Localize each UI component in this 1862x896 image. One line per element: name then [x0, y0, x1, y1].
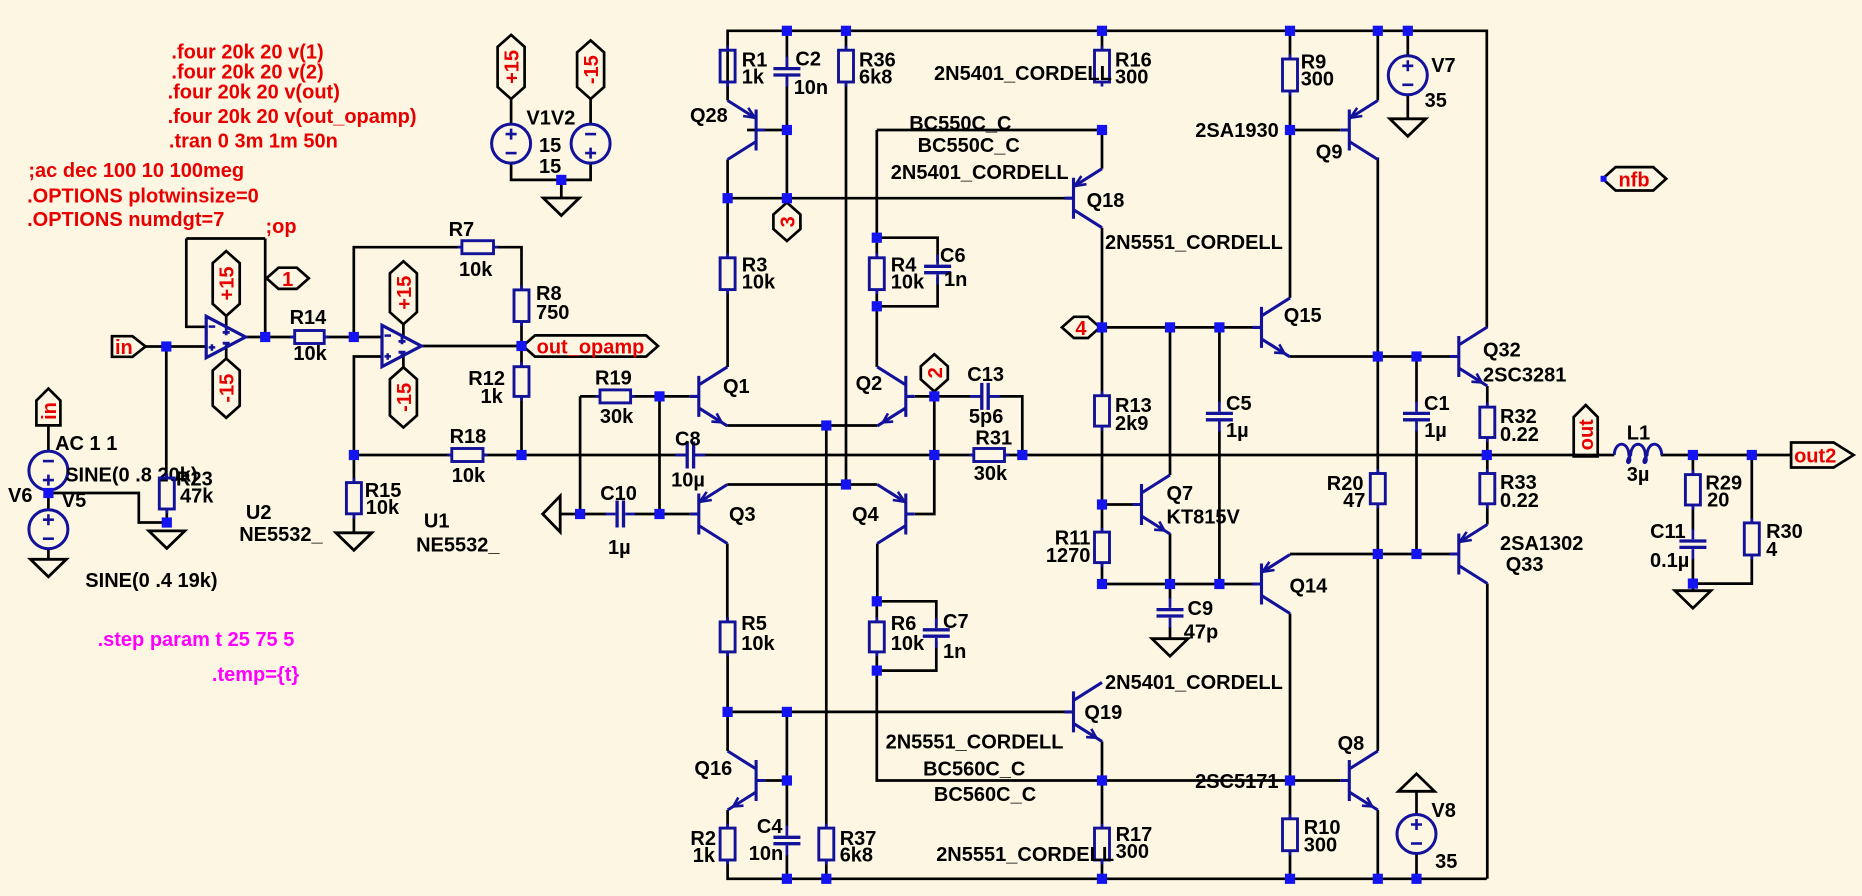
svg-text:1µ: 1µ — [1424, 420, 1447, 442]
wire R6 node down and right to Q19 emitter node — [877, 671, 1102, 781]
wire U1 +input down to R15/R18 node — [354, 357, 382, 456]
svg-text:NE5532_: NE5532_ — [416, 535, 500, 557]
wire U2 feedback left to -input — [186, 239, 206, 327]
svg-text:47k: 47k — [180, 486, 214, 508]
wire R23 bottom to ground node — [165, 509, 168, 523]
resistor R19 — [595, 368, 635, 429]
svg-text:+15: +15 — [394, 276, 416, 310]
svg-text:R5: R5 — [741, 613, 767, 635]
wire Q14 emitter bus to Q33 base — [1290, 553, 1450, 556]
net flag out_opamp — [523, 335, 658, 358]
junction V6 V5 — [43, 488, 53, 498]
wire U1 V- to -15 flag — [402, 356, 405, 367]
wire out node: L1 to out2 flag — [1661, 454, 1791, 457]
svg-text:BC550C_C: BC550C_C — [909, 113, 1011, 135]
power flag -15 at U2 — [213, 359, 240, 418]
junction U2 output — [260, 332, 270, 342]
svg-text:10n: 10n — [794, 77, 828, 99]
wire in flag to U2 +input — [146, 345, 207, 348]
junction Q8 base R10 — [1285, 775, 1295, 785]
wire node 3 bus to Q18 base — [728, 197, 1065, 200]
ground below R23 — [149, 531, 185, 549]
transistor Q32 — [1450, 327, 1567, 387]
wire bus to C1 top — [1415, 357, 1418, 403]
wire C11 to ground node — [1692, 558, 1695, 591]
svg-text:47p: 47p — [1184, 622, 1218, 644]
wire Q3 emitter to Q4 emitter — [727, 483, 877, 486]
svg-text:2k9: 2k9 — [1115, 413, 1148, 435]
svg-text:-15: -15 — [217, 374, 239, 403]
wire C6 bottom jog — [877, 277, 938, 306]
junction C10 left — [575, 509, 585, 519]
resistor R29 — [1685, 470, 1742, 511]
capacitor C5 — [1206, 393, 1252, 442]
svg-text:C9: C9 — [1188, 598, 1214, 620]
svg-text:V7: V7 — [1431, 55, 1455, 77]
wire +15 flag to U1 V+ — [402, 324, 405, 336]
wire Q28 collector to node3 and R3 top — [726, 160, 729, 258]
transistor Q8 — [1338, 733, 1378, 810]
resistor R36 — [839, 46, 896, 89]
svg-text:;op: ;op — [266, 216, 297, 238]
resistor R9 — [1283, 51, 1335, 95]
wire Q18 emitter node to R4 column (BC550C_C bus) — [877, 129, 1102, 132]
junction node4 — [1097, 322, 1107, 332]
svg-text:10k: 10k — [452, 465, 486, 487]
transistor Q9 — [1316, 101, 1378, 164]
svg-text:Q14: Q14 — [1290, 576, 1329, 598]
svg-text:.four 20k 20 v(2): .four 20k 20 v(2) — [171, 62, 323, 84]
wire node down to Q16 base node — [786, 712, 789, 781]
wire node2 down main bus to Q4 base — [915, 391, 935, 514]
net flag out — [1574, 405, 1599, 456]
wire R4 bottom stub — [875, 290, 878, 307]
ground below V7 — [1390, 119, 1426, 137]
wire V8 to rail — [1415, 854, 1418, 879]
junction R6 top — [872, 596, 882, 606]
wire down to R4 top junction — [875, 130, 878, 238]
wire R14 to U1 -input — [324, 336, 382, 339]
transistor Q15 — [1253, 298, 1322, 357]
wire V6/V5 node to R23 ground node — [48, 493, 166, 523]
svg-text:2N5401_CORDELL: 2N5401_CORDELL — [934, 63, 1112, 85]
wire row to C9 top — [1169, 584, 1172, 599]
capacitor C8 — [671, 429, 705, 492]
svg-text:2N5401_CORDELL: 2N5401_CORDELL — [1105, 672, 1283, 694]
junction Q7 base — [1097, 499, 1107, 509]
svg-text:V6: V6 — [8, 485, 32, 507]
wire C7 top jog — [877, 601, 937, 626]
junction Q28 base — [782, 125, 792, 135]
svg-text:2SA1930: 2SA1930 — [1195, 120, 1278, 142]
svg-text:Q19: Q19 — [1084, 702, 1122, 724]
svg-text:nfb: nfb — [1618, 169, 1649, 191]
wire Q9 collector down to Q15 emitter bus — [1376, 158, 1379, 357]
resistor R4 — [869, 253, 925, 294]
wire U2 feedback top — [186, 237, 265, 240]
wire C13 right down to main bus — [989, 396, 1023, 455]
svg-text:6k8: 6k8 — [859, 67, 892, 89]
wire R30 bottom to ground node — [1693, 555, 1752, 584]
junction V1 V2 — [556, 175, 566, 185]
svg-text:300: 300 — [1116, 841, 1149, 863]
junction rail C4 — [782, 874, 792, 884]
svg-text:Q7: Q7 — [1167, 483, 1194, 505]
wire C2 bottom through Q28 base node to node 3 bus — [786, 76, 789, 198]
wire Q4 collector to R6 top — [876, 544, 879, 602]
ground below V5 — [30, 559, 66, 577]
op-amp U1 — [382, 325, 500, 556]
svg-text:.temp={t}: .temp={t} — [212, 664, 299, 686]
transistor Q18 — [1065, 169, 1125, 228]
svg-text:Q9: Q9 — [1316, 142, 1343, 164]
transistor Q4 — [852, 485, 915, 544]
power flag -15 at V2 — [577, 40, 604, 99]
svg-text:2SC3281: 2SC3281 — [1483, 365, 1566, 387]
wire R33 bottom to Q33 emitter — [1486, 504, 1489, 525]
transistor Q2 — [856, 367, 915, 426]
resistor R6 — [869, 613, 925, 656]
resistor R3 — [720, 253, 776, 294]
wire in node down to R23 — [165, 347, 168, 479]
wire C10 left lead — [580, 513, 606, 516]
svg-text:;ac dec 100 10 100meg: ;ac dec 100 10 100meg — [28, 160, 244, 182]
wire C5 bottom to row — [1218, 430, 1221, 584]
svg-text:35: 35 — [1425, 90, 1447, 112]
resistor R16 — [1095, 46, 1152, 89]
svg-text:C7: C7 — [943, 611, 969, 633]
junction PNP emitters R36 — [841, 479, 851, 489]
junction main bus node2 — [929, 450, 939, 460]
svg-text:30k: 30k — [600, 406, 634, 428]
junction R4 C6 bottom — [872, 301, 882, 311]
wire Q3 collector to R5 top — [726, 544, 729, 622]
svg-text:300: 300 — [1115, 67, 1148, 89]
junction R11 bottom — [1097, 579, 1107, 589]
resistor R20 — [1327, 469, 1386, 512]
svg-text:U1: U1 — [424, 511, 450, 533]
svg-text:V8: V8 — [1431, 800, 1455, 822]
ground at C10 — [543, 496, 561, 532]
wire R5 node to Q19 base bus — [728, 711, 1065, 714]
svg-text:U2: U2 — [246, 502, 272, 524]
transistor Q28 — [690, 101, 765, 160]
net flag nfb — [1601, 167, 1667, 191]
wire Q16 base stub to node — [765, 779, 787, 782]
transistor Q1 — [690, 367, 750, 426]
svg-text:C2: C2 — [795, 48, 821, 70]
junction out R29 — [1688, 450, 1698, 460]
svg-text:0.1µ: 0.1µ — [1650, 550, 1689, 572]
inductor L1 — [1614, 423, 1661, 487]
wire node down to Q16 collector — [726, 712, 729, 751]
wire node4 junction down to C5 top — [1218, 327, 1221, 402]
svg-text:BC560C_C: BC560C_C — [923, 759, 1025, 781]
junction Q19 emitter R17 — [1097, 775, 1107, 785]
wire rail to R36 top — [845, 31, 848, 50]
junction R6 bottom — [872, 666, 882, 676]
wire R36 bottom down to PNP pair emitter node — [845, 82, 848, 485]
ground below V1 V2 — [543, 198, 579, 216]
svg-text:Q3: Q3 — [729, 504, 756, 526]
capacitor C6 — [924, 245, 967, 291]
wire V5 bottom to ground — [47, 549, 50, 560]
wire R32 bottom through main bus to R33 top — [1486, 438, 1489, 474]
svg-text:R6: R6 — [891, 613, 917, 635]
wire R9/Q9 base node down to Q15 collector — [1289, 130, 1292, 298]
wire Q15 emitter bus to Q32 base — [1290, 355, 1450, 358]
svg-text:2N5551_CORDELL: 2N5551_CORDELL — [936, 844, 1114, 866]
wire bus to R20 top — [1376, 357, 1379, 474]
wire Q9 base to R9 bottom — [1290, 129, 1340, 132]
junction rail V7 — [1403, 26, 1413, 36]
voltage source V5 — [29, 490, 218, 592]
junction main bus R12 — [516, 450, 526, 460]
wire Q33 collector down to bottom rail — [1486, 584, 1489, 879]
net flag out2 — [1791, 443, 1854, 468]
junction rail R10 — [1285, 874, 1295, 884]
voltage source V8 — [1397, 800, 1457, 873]
wire U2 feedback right / node 1 — [264, 239, 267, 338]
junction main bus C13 — [1017, 450, 1027, 460]
wire -15 flag to V2 — [589, 99, 592, 124]
resistor R7 — [449, 219, 498, 281]
svg-text:10k: 10k — [366, 497, 400, 519]
svg-text:2N5401_CORDELL: 2N5401_CORDELL — [891, 162, 1069, 184]
wire node4 down to R13 top — [1101, 327, 1104, 395]
svg-text:10k: 10k — [741, 633, 775, 655]
svg-text:300: 300 — [1301, 68, 1334, 90]
junction R9 bottom — [1285, 125, 1295, 135]
junction in node — [161, 341, 171, 351]
svg-text:C4: C4 — [757, 816, 783, 838]
resistor R1 — [720, 46, 767, 89]
voltage source V2 — [539, 124, 610, 178]
resistor R17 — [1095, 824, 1153, 865]
transistor Q16 — [694, 751, 765, 810]
wire +rail top / R1 top to Q32 collector — [728, 31, 1487, 328]
wire out_opamp node to R12 top — [520, 346, 523, 367]
junction node2 — [929, 391, 939, 401]
wire U1 output to out_opamp flag — [421, 345, 523, 348]
svg-text:NE5532_: NE5532_ — [239, 524, 323, 546]
wire bottom rail — [728, 860, 1487, 879]
junction output ground — [1688, 579, 1698, 589]
wire V1V2 node to ground — [560, 180, 563, 198]
wire Q7 base node to R11 top — [1101, 505, 1104, 533]
wire Q32 emitter to R32 — [1486, 386, 1489, 407]
power flag +15 at U2 — [213, 251, 240, 316]
svg-text:3µ: 3µ — [1627, 464, 1650, 486]
op-amp U2 — [206, 316, 323, 546]
svg-text:.four 20k 20 v(1): .four 20k 20 v(1) — [171, 42, 323, 64]
junction R14 R7 — [349, 332, 359, 342]
junction rail R37 — [821, 874, 831, 884]
svg-text:1k: 1k — [693, 845, 716, 867]
svg-text:1n: 1n — [944, 269, 967, 291]
svg-text:Q15: Q15 — [1284, 305, 1322, 327]
ground at output — [1675, 591, 1711, 609]
resistor R30 — [1744, 518, 1803, 561]
wire bus down to Q8 collector — [1376, 554, 1379, 751]
wire V6 to V5 — [47, 490, 50, 510]
svg-text:SINE(0 .4 19k): SINE(0 .4 19k) — [85, 570, 217, 592]
svg-text:+15: +15 — [217, 267, 239, 301]
wire node to Q8 base — [1290, 779, 1340, 782]
svg-text:.four 20k 20 v(out): .four 20k 20 v(out) — [168, 81, 340, 103]
junction Q15 emitter R20 — [1373, 351, 1383, 361]
svg-text:47: 47 — [1343, 490, 1365, 512]
svg-text:C5: C5 — [1226, 393, 1252, 415]
junction node4 C5 — [1214, 322, 1224, 332]
svg-text:35: 35 — [1435, 851, 1457, 873]
svg-text:1µ: 1µ — [1226, 420, 1249, 442]
wire C4 bottom to rail — [786, 855, 789, 879]
svg-text:30k: 30k — [974, 463, 1008, 485]
wire rail to V7 plus — [1406, 31, 1409, 56]
svg-text:C6: C6 — [940, 245, 966, 267]
wire Q19 emitter down to node — [1101, 741, 1104, 780]
wire R9 bottom stub — [1289, 91, 1292, 130]
svg-text:10k: 10k — [891, 633, 925, 655]
capacitor C1 — [1403, 393, 1450, 442]
svg-text:3: 3 — [777, 216, 799, 227]
wire R14 node up to R7 — [354, 247, 462, 337]
wire to R19 body — [580, 395, 600, 398]
wire main bus: R15 node to R18 — [354, 454, 452, 457]
svg-text:Q1: Q1 — [723, 376, 750, 398]
junction node3 left — [723, 193, 733, 203]
svg-text:C1: C1 — [1424, 393, 1450, 415]
resistor R8 — [514, 283, 569, 326]
wire node2 to C13 — [934, 395, 981, 398]
junction R23 bottom — [162, 517, 172, 527]
junction NPN emitters — [821, 420, 831, 430]
wire R19 to Q1 base — [631, 395, 690, 398]
svg-text:1270: 1270 — [1046, 545, 1091, 567]
power flag +15 at V1 — [498, 35, 525, 99]
capacitor C9 — [1157, 598, 1219, 644]
wire node down to R17 top — [1101, 781, 1104, 829]
svg-text:AC 1 1: AC 1 1 — [55, 433, 117, 455]
wire Q2 base to node 2 — [915, 395, 935, 398]
svg-text:R14: R14 — [290, 307, 328, 329]
capacitor C2 — [773, 48, 828, 99]
wire C9 bottom to ground — [1169, 627, 1172, 639]
net flag in above V6 — [36, 389, 61, 426]
svg-text:2SA1302: 2SA1302 — [1500, 533, 1583, 555]
junction Q16 base C4 — [782, 775, 792, 785]
junction out R30 — [1747, 450, 1757, 460]
wire Q18 collector to node 4 — [1101, 228, 1104, 328]
svg-text:.four 20k 20 v(out_opamp): .four 20k 20 v(out_opamp) — [168, 106, 417, 128]
voltage source V6 — [8, 433, 197, 507]
ground flag above V8 — [1399, 774, 1435, 792]
resistor R33 — [1480, 469, 1539, 512]
svg-text:C11: C11 — [1650, 521, 1686, 543]
wire C7 bottom jog — [877, 641, 937, 671]
transistor Q14 — [1253, 555, 1329, 614]
wire R15 bottom to ground — [353, 514, 356, 533]
svg-text:4: 4 — [1766, 539, 1778, 561]
wire Q1 base column down to Q3 base — [658, 396, 661, 514]
svg-text:-15: -15 — [394, 383, 416, 412]
resistor R11 — [1046, 528, 1110, 568]
wire R37 bottom to rail — [825, 860, 828, 879]
svg-text:0.22: 0.22 — [1500, 490, 1539, 512]
net flag node 4 — [1062, 317, 1100, 340]
wire +15 flag to V1 — [510, 99, 513, 124]
svg-text:KT815V: KT815V — [1167, 507, 1241, 529]
resistor R18 — [447, 426, 487, 487]
junction C5 bottom — [1214, 579, 1224, 589]
wire main bus: R18 to C8 — [483, 454, 686, 457]
svg-text:1µ: 1µ — [608, 537, 631, 559]
svg-text:C13: C13 — [967, 364, 1004, 386]
svg-text:.step param t 25 75 5: .step param t 25 75 5 — [98, 629, 295, 651]
wire Q16 emitter to R2 — [726, 810, 729, 828]
svg-text:1n: 1n — [943, 641, 966, 663]
capacitor C13 — [967, 364, 1004, 428]
junction Q1 base R19 — [654, 391, 664, 401]
resistor R37 — [819, 824, 877, 867]
wire R7 to R8 top — [494, 247, 522, 290]
resistor R32 — [1480, 403, 1539, 446]
wire Q8 emitter to rail — [1376, 810, 1379, 879]
svg-text:10k: 10k — [891, 272, 925, 294]
wire C10 ground to junction — [560, 513, 580, 516]
wire in flag to V6 top — [47, 425, 50, 451]
junction R5 bottom — [723, 707, 733, 717]
wire R11 bottom stub — [1101, 563, 1104, 584]
net flag node 1 — [267, 268, 309, 291]
svg-text:Q18: Q18 — [1087, 190, 1125, 212]
resistor R23 — [159, 469, 214, 514]
svg-text:10n: 10n — [749, 843, 783, 865]
resistor R12 — [468, 362, 529, 408]
junction node3 flag — [782, 193, 792, 203]
junction rail R16 — [1097, 26, 1107, 36]
wire V8 ground flag to V8 — [1415, 791, 1418, 815]
wire rail to Q9 emitter — [1376, 31, 1379, 101]
wire U2 V- to -15 flag — [225, 347, 228, 359]
svg-text:15: 15 — [539, 135, 561, 157]
svg-text:C8: C8 — [675, 429, 701, 451]
svg-text:Q28: Q28 — [690, 105, 728, 127]
wire R10 bottom to rail — [1289, 851, 1292, 879]
wire R5 bottom to node — [726, 652, 729, 712]
junction rail Q9 — [1373, 26, 1383, 36]
power flag +15 at U1 — [390, 261, 417, 324]
resistor R13 — [1095, 391, 1152, 435]
ground below C9 — [1152, 639, 1188, 657]
junction Q7 emitter C9 — [1165, 579, 1175, 589]
wire V1/V2 common node — [511, 163, 590, 180]
ground below R15 — [336, 533, 372, 551]
net flag in (signal) — [112, 336, 146, 359]
resistor R2 — [690, 824, 735, 867]
wire main bus: R31 to L1 (out node) — [1005, 454, 1615, 457]
svg-text:Q32: Q32 — [1483, 340, 1521, 362]
svg-text:R18: R18 — [450, 426, 487, 448]
svg-text:R19: R19 — [595, 368, 632, 390]
svg-text:R31: R31 — [975, 428, 1012, 450]
wire node down to R10 top — [1289, 781, 1292, 819]
wire R6 top stub — [875, 601, 878, 622]
junction main bus R15 — [349, 450, 359, 460]
transistor Q3 — [690, 485, 756, 544]
wire Q14 collector down to Q8 base node — [1289, 614, 1292, 781]
